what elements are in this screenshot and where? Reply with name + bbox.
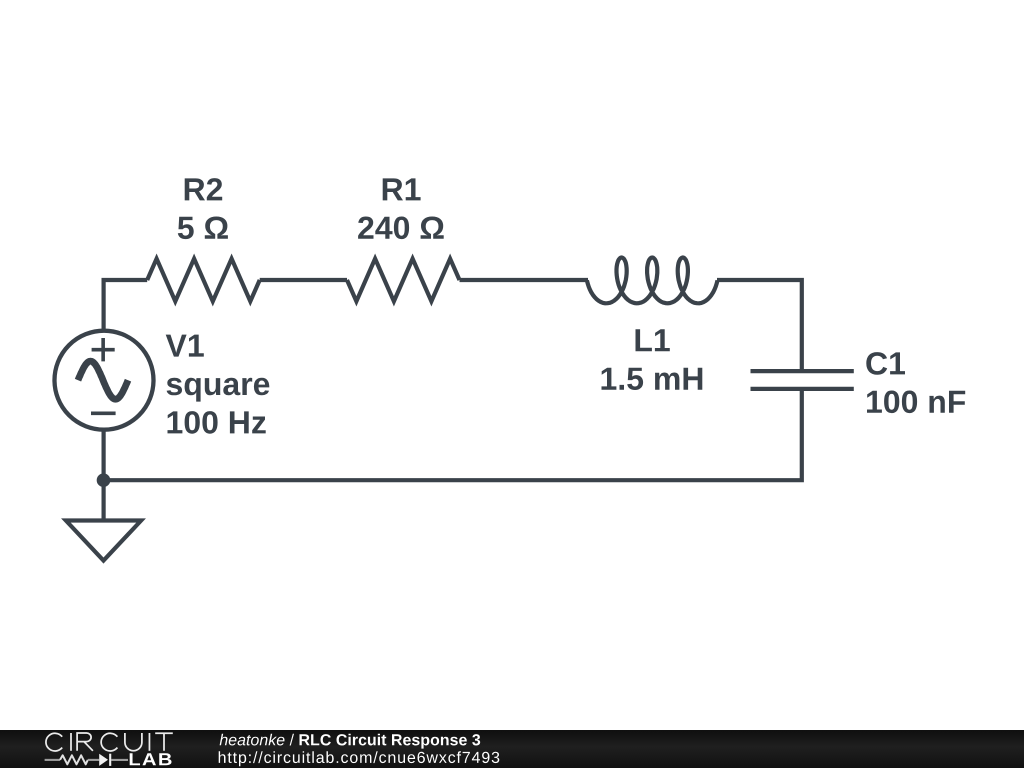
- wire: L1 to top-right corner down to C1 top plate: [717, 280, 802, 371]
- logo LAB text: [130, 753, 172, 765]
- footer title heatonke italic: [220, 734, 285, 746]
- label R1 name: [383, 178, 421, 200]
- label L1 value 1.5 mH: [602, 368, 703, 390]
- logo letter C: [46, 733, 62, 751]
- label C1 value 100 nF: [867, 391, 965, 414]
- resistor R1: [347, 259, 460, 302]
- wire: R1 to L1: [460, 278, 589, 282]
- logo diode wire out: [111, 759, 128, 761]
- label V1 frequency 100 Hz: [168, 411, 266, 434]
- label R2 name: [185, 178, 223, 200]
- logo letter U: [125, 733, 142, 751]
- voltage source V1 circle: [55, 331, 154, 430]
- V1 plus sign: [92, 338, 115, 361]
- logo letter C2: [101, 733, 117, 751]
- footer bar background: [0, 730, 1024, 768]
- label R1 value 240 ohm: [358, 217, 444, 240]
- label V1 type square: [167, 378, 270, 402]
- wire: V1 bottom to junction: [101, 429, 105, 481]
- logo letter T: [155, 733, 173, 751]
- logo resistor squiggle: [60, 755, 88, 764]
- capacitor C1 bottom plate: [751, 387, 854, 391]
- logo letter R: [77, 733, 93, 751]
- resistor R2: [147, 259, 260, 302]
- wire: R2 to R1: [260, 278, 347, 282]
- wire: top-left corner, V1 top to R2 left: [104, 280, 148, 332]
- ground symbol: [66, 521, 141, 561]
- junction node dot: [97, 473, 111, 487]
- footer url: [219, 751, 500, 766]
- logo diode bar: [109, 754, 111, 766]
- wire: junction to ground: [101, 480, 105, 520]
- label V1 name: [166, 335, 204, 357]
- wire: C1 bottom plate to bottom-right corner to ground junction: [104, 389, 802, 480]
- logo diode triangle: [99, 754, 108, 766]
- label R2 value 5 ohm: [178, 217, 228, 240]
- logo wire resistor to diode: [88, 759, 99, 761]
- label L1 name: [636, 329, 670, 351]
- footer title RLC Circuit Response 3 bold: [300, 734, 481, 749]
- V1 sine waveform: [78, 361, 128, 399]
- label C1 name: [866, 352, 905, 375]
- logo wire into resistor: [45, 759, 60, 761]
- V1 minus sign: [91, 411, 116, 415]
- inductor L1: [587, 258, 718, 304]
- logo letter I: [70, 733, 72, 751]
- footer title slash: [290, 734, 294, 746]
- logo letter I2: [148, 733, 150, 751]
- capacitor C1 top plate: [751, 369, 854, 373]
